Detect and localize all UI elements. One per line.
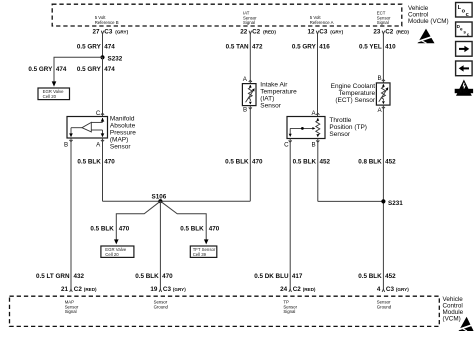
svg-text:(VCM): (VCM): [443, 316, 461, 323]
svg-text:22: 22: [240, 29, 248, 36]
svg-text:410: 410: [385, 43, 396, 50]
pin 22 C2 connector fork: [249, 31, 252, 34]
svg-text:0.5 TAN: 0.5 TAN: [226, 43, 249, 50]
TFT Sensor Cell 39 box: [190, 246, 217, 257]
svg-text:452: 452: [385, 273, 396, 280]
svg-text:Manifold: Manifold: [110, 115, 135, 122]
wire 452 BLK (TP pin B down): [317, 139, 319, 202]
wire 452 BLK link to S231: [318, 200, 384, 202]
svg-text:Cell 20: Cell 20: [43, 94, 57, 99]
wire label 0.5 GRY 474 (top): [77, 43, 115, 50]
VCM label (bottom): [443, 296, 464, 323]
net label 5 Volt Reference A: [310, 15, 334, 25]
ESD symbol (bottom VCM): [459, 317, 474, 331]
TP sensor: [287, 117, 325, 139]
svg-text:27: 27: [92, 29, 100, 36]
svg-text:0.5 GRY: 0.5 GRY: [77, 66, 102, 73]
VCM bottom dashed box: [10, 296, 440, 326]
wire 470 BLK (MAP pin A down): [102, 138, 104, 201]
EGR Valve Cell 20 box (bottom): [101, 246, 134, 257]
thermistor symbol inside IAT: [248, 85, 252, 101]
svg-text:C: C: [284, 141, 289, 148]
svg-text:Sensor: Sensor: [329, 131, 350, 138]
svg-text:4: 4: [377, 286, 381, 293]
wire label 0.5 BLK 470 (bottom): [135, 273, 173, 280]
pin 21 C2 connector fork: [70, 289, 73, 292]
pin 22 C2 label: [240, 29, 276, 36]
ECT sensor: [376, 83, 390, 105]
svg-text:(ECT) Sensor: (ECT) Sensor: [335, 97, 376, 104]
pin 23 C2 connector fork: [382, 31, 385, 34]
toolbar button prev (left arrow): [456, 61, 473, 76]
wire label 0.5 BLK 470 (IAT): [225, 158, 263, 165]
net label Sensor Ground (4): [377, 299, 392, 309]
svg-text:470: 470: [209, 225, 220, 232]
TP pin C fork: [289, 140, 292, 142]
svg-text:0.5 BLK: 0.5 BLK: [90, 225, 114, 232]
VCM top dashed box: [52, 4, 402, 26]
wire label 0.5 GRY 416: [292, 43, 330, 50]
svg-text:S106: S106: [152, 193, 167, 200]
svg-text:B: B: [243, 107, 247, 114]
wire 416 GRY (pin 12 to TP pin A): [317, 34, 319, 117]
svg-text:Module (VCM): Module (VCM): [408, 18, 449, 25]
svg-text:(MAP): (MAP): [110, 136, 128, 143]
ECT sensor name: [331, 83, 376, 104]
svg-text:24: 24: [280, 286, 288, 293]
svg-text:(RED): (RED): [303, 287, 316, 292]
svg-text:C3: C3: [163, 286, 172, 293]
ESD symbol (top VCM): [418, 29, 435, 44]
svg-text:C3: C3: [319, 29, 328, 36]
wire 417 DK BLU (TP pin C to pin 24): [289, 139, 291, 290]
wire 470 BLK (S106 to pin 19): [159, 201, 161, 289]
net label 5 Volt Reference B: [95, 15, 119, 25]
svg-text:452: 452: [385, 158, 396, 165]
wire label 0.8 BLK 452: [358, 158, 396, 165]
arrow into TFT sensor: [204, 239, 209, 244]
IAT pin B fork: [249, 107, 252, 109]
svg-text:470: 470: [252, 158, 263, 165]
pin 12 C3 connector fork: [316, 31, 319, 34]
wire label 0.5 TAN 472: [226, 43, 263, 50]
wire 474 GRY (S232 to MAP pin C): [102, 57, 104, 116]
toolbar button Loc: [456, 3, 473, 18]
wiper arrow: [290, 127, 313, 129]
TP sensor name: [329, 117, 367, 138]
svg-text:470: 470: [119, 225, 130, 232]
svg-text:(GRY): (GRY): [396, 287, 409, 292]
svg-text:474: 474: [56, 66, 67, 73]
ECT pin B fork: [382, 79, 385, 81]
svg-text:Cell 20: Cell 20: [105, 252, 119, 257]
svg-text:C: C: [96, 110, 101, 117]
pin 19 C3 label: [150, 286, 186, 293]
svg-text:452: 452: [320, 158, 331, 165]
svg-text:12: 12: [307, 29, 315, 36]
arrow into EGR valve: [52, 81, 57, 86]
svg-text:(RED): (RED): [84, 287, 97, 292]
svg-text:B: B: [311, 141, 315, 148]
splice S231: [381, 199, 403, 207]
svg-text:Sensor: Sensor: [260, 103, 281, 110]
svg-text:Engine Coolant: Engine Coolant: [331, 83, 376, 90]
svg-text:Temperature: Temperature: [260, 89, 297, 96]
svg-text:19: 19: [150, 286, 158, 293]
pin 24 C2 label: [280, 286, 316, 293]
svg-text:Signal: Signal: [283, 309, 295, 314]
svg-text:21: 21: [61, 286, 69, 293]
VCM label (top): [408, 5, 449, 25]
svg-text:0.5 BLK: 0.5 BLK: [77, 158, 101, 165]
pin 21 C2 label: [61, 286, 97, 293]
MAP pin B fork: [69, 140, 72, 142]
IAT pin A fork: [249, 80, 252, 82]
splice S232: [100, 55, 122, 62]
wire label 0.5 BLK 452 (TP): [293, 158, 331, 165]
TP pin B fork: [316, 140, 319, 142]
MAP sensor: [67, 117, 108, 139]
pin 4 C3 connector fork: [382, 289, 385, 292]
wire 472 TAN (pin 22 to IAT): [249, 34, 251, 84]
wire branch S106 to TFT sensor: [160, 201, 206, 240]
svg-text:Throttle: Throttle: [329, 117, 351, 124]
svg-text:Ground: Ground: [377, 304, 392, 309]
svg-text:416: 416: [319, 43, 330, 50]
wire label 0.5 BLK 470 (branch left): [90, 225, 129, 232]
wire label 0.5 GRY 474 (branch): [28, 66, 67, 73]
svg-text:Temperature: Temperature: [339, 90, 376, 97]
svg-text:S232: S232: [108, 55, 123, 62]
svg-text:B: B: [64, 141, 68, 148]
pin 4 C3 label: [377, 286, 409, 293]
wire label 0.5 BLK 470 (branch right): [180, 225, 219, 232]
svg-text:474: 474: [104, 66, 115, 73]
MAP pin A fork: [101, 140, 104, 142]
IAT sensor: [242, 84, 256, 106]
svg-text:Reference A: Reference A: [310, 20, 334, 25]
wire 470 BLK (IAT pin B down): [249, 106, 251, 202]
svg-text:Position (TP): Position (TP): [329, 124, 367, 131]
potentiometer symbol inside TP: [316, 119, 320, 135]
svg-text:23: 23: [373, 29, 381, 36]
svg-text:B: B: [377, 75, 381, 82]
svg-text:470: 470: [162, 273, 173, 280]
svg-text:Signal: Signal: [377, 20, 389, 25]
svg-text:Ground: Ground: [154, 304, 169, 309]
svg-text:C2: C2: [385, 29, 394, 36]
svg-text:0.5 GRY: 0.5 GRY: [77, 43, 102, 50]
svg-text:Signal: Signal: [243, 20, 255, 25]
svg-text:0.5 DK BLU: 0.5 DK BLU: [254, 273, 289, 280]
net label Sensor Ground (19): [154, 299, 169, 309]
net label MAP Sensor Signal: [65, 299, 79, 314]
wire label 0.5 LT GRN 432: [36, 273, 84, 280]
svg-text:C2: C2: [293, 286, 302, 293]
svg-text:0.5 GRY: 0.5 GRY: [292, 43, 317, 50]
wire branch S106 to EGR valve (bottom): [116, 201, 160, 240]
svg-text:Sensor: Sensor: [110, 143, 131, 150]
svg-text:0.5 BLK: 0.5 BLK: [135, 273, 159, 280]
net label ECT Sensor Signal: [377, 10, 391, 25]
svg-text:ESD: ESD: [460, 90, 468, 94]
svg-text:0.5 BLK: 0.5 BLK: [358, 273, 382, 280]
svg-text:Absolute: Absolute: [110, 122, 136, 129]
net label IAT Sensor Signal: [243, 10, 257, 25]
splice S106: [152, 193, 167, 203]
svg-text:Reference B: Reference B: [95, 20, 119, 25]
wire 470 BLK bus (horizontal): [103, 200, 251, 202]
svg-text:c: c: [467, 32, 470, 37]
svg-text:(GRY): (GRY): [330, 29, 343, 34]
svg-text:(GRY): (GRY): [173, 287, 186, 292]
svg-text:(RED): (RED): [263, 29, 276, 34]
wire 474 GRY (pin 27 to S232): [102, 34, 104, 57]
svg-text:474: 474: [104, 43, 115, 50]
MAP pin C fork: [101, 113, 104, 115]
toolbar button Desc: [456, 22, 473, 37]
svg-text:472: 472: [252, 43, 263, 50]
svg-text:0.5 BLK: 0.5 BLK: [180, 225, 204, 232]
toolbar ESD warning icon: [455, 80, 473, 96]
wire 410 YEL (pin 23 to ECT pin B): [382, 34, 384, 83]
pin 12 C3 label: [307, 29, 343, 36]
svg-text:C2: C2: [74, 286, 83, 293]
svg-text:(GRY): (GRY): [115, 29, 128, 34]
pin 24 C2 connector fork: [289, 289, 292, 292]
pin 23 C2 label: [373, 29, 409, 36]
svg-text:0.5 BLK: 0.5 BLK: [225, 158, 249, 165]
wire 452 BLK (ECT pin A down): [382, 105, 384, 289]
svg-text:(IAT): (IAT): [260, 96, 274, 103]
ECT pin A fork: [382, 107, 385, 109]
pin 27 C3 connector fork: [101, 31, 104, 34]
svg-text:C3: C3: [386, 286, 395, 293]
toolbar button next (right arrow): [456, 42, 473, 57]
op-amp symbol inside MAP: [82, 122, 91, 131]
pin 19 C3 connector fork: [159, 289, 162, 292]
thermistor symbol inside ECT: [381, 85, 385, 101]
svg-text:417: 417: [292, 273, 303, 280]
MAP sensor name: [110, 115, 136, 150]
svg-text:470: 470: [104, 158, 115, 165]
net label TP Sensor Signal: [283, 299, 297, 314]
svg-text:0.5 GRY: 0.5 GRY: [28, 66, 53, 73]
svg-text:432: 432: [74, 273, 85, 280]
wire label 0.5 GRY 474 (to MAP): [77, 66, 115, 73]
svg-text:S231: S231: [388, 200, 403, 207]
wire label 0.5 BLK 470 (left): [77, 158, 115, 165]
svg-text:C3: C3: [104, 29, 113, 36]
svg-text:C2: C2: [252, 29, 261, 36]
wire label 0.5 BLK 452 (bottom): [358, 273, 396, 280]
wire 432 LT GRN (MAP pin B to pin 21): [70, 138, 72, 289]
wire label 0.5 YEL 410: [359, 43, 396, 50]
svg-text:0.5 YEL: 0.5 YEL: [359, 43, 382, 50]
pin 27 C3 label: [92, 29, 128, 36]
wire label 0.5 DK BLU 417: [254, 273, 303, 280]
IAT sensor name: [260, 82, 297, 110]
svg-text:Cell 39: Cell 39: [193, 252, 207, 257]
svg-text:0.5 LT GRN: 0.5 LT GRN: [36, 273, 70, 280]
wire 474 GRY branch to EGR valve: [54, 57, 103, 82]
svg-text:0.8 BLK: 0.8 BLK: [358, 158, 382, 165]
svg-text:Intake Air: Intake Air: [260, 82, 288, 89]
EGR Valve Cell 20 box (top): [38, 88, 70, 100]
svg-text:c: c: [466, 12, 469, 18]
svg-text:(RED): (RED): [396, 29, 409, 34]
svg-text:Signal: Signal: [65, 309, 77, 314]
arrow into EGR valve (bottom): [114, 239, 119, 244]
svg-text:0.5 BLK: 0.5 BLK: [293, 158, 317, 165]
TP pin A fork: [316, 113, 319, 115]
